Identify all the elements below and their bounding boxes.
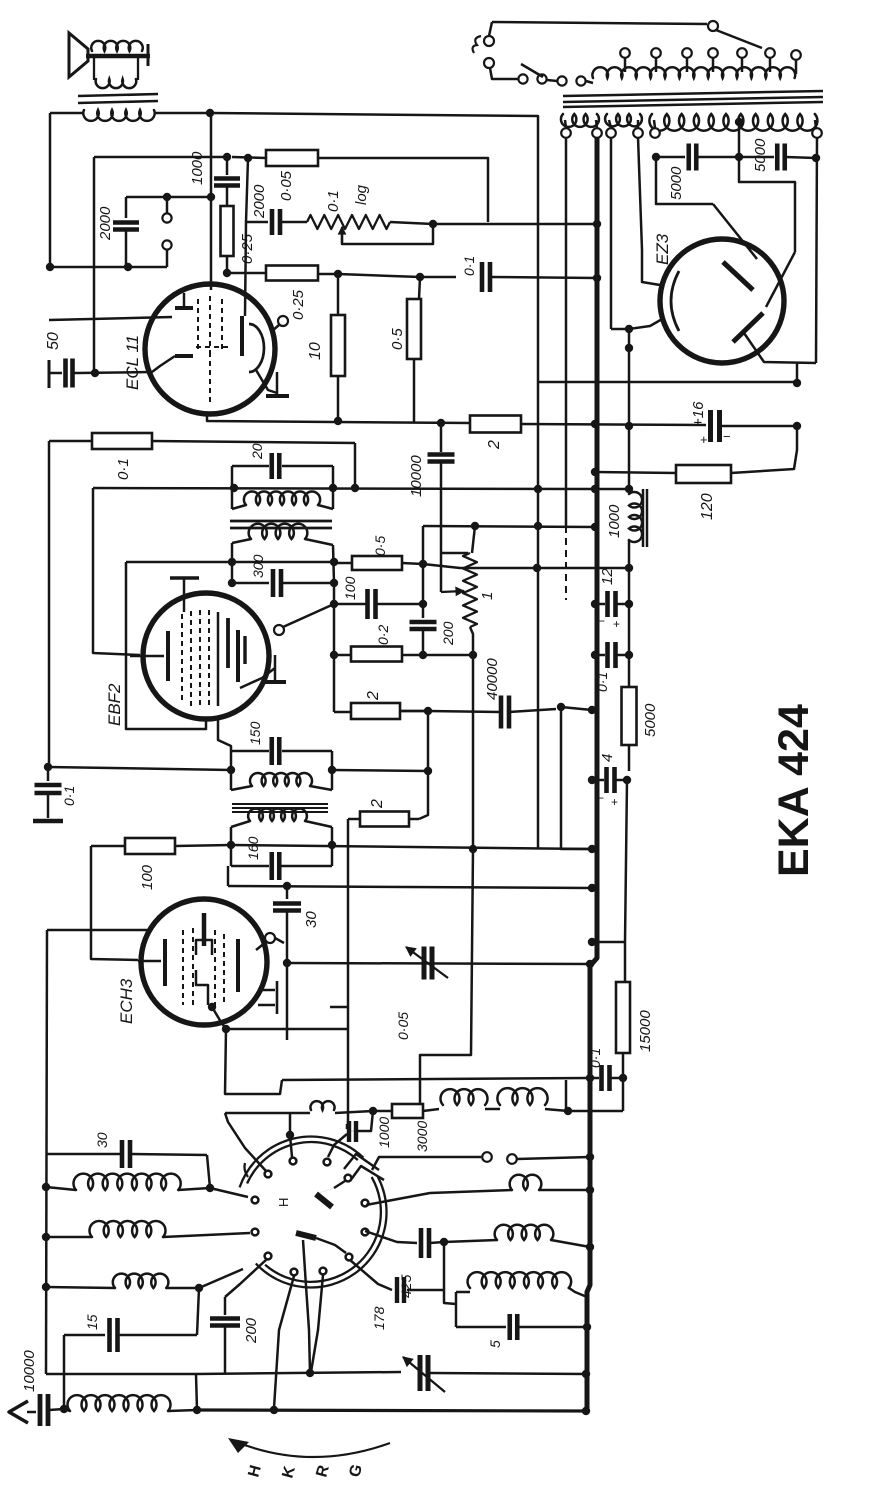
resistor 3000 horizontal <box>392 1104 423 1118</box>
transformer T2 secondary winding right <box>649 114 817 131</box>
svg-text:3000: 3000 <box>414 1121 430 1152</box>
svg-text:+16: +16 <box>690 401 707 427</box>
potentiometer 1 zigzag vertical <box>463 553 477 627</box>
svg-text:0·2: 0·2 <box>375 625 391 645</box>
wire x334 vertical down <box>333 583 336 712</box>
tube ECH3 triode anode bar <box>202 913 207 946</box>
wire x91 vertical <box>91 846 138 960</box>
node dot bus y888 <box>588 884 596 892</box>
capacitor tuning 2 variable <box>418 1355 423 1391</box>
speaker voice coil <box>86 54 150 59</box>
capacitor 40000 <box>499 696 504 729</box>
node dot pot right <box>429 220 437 228</box>
wire x428 vertical <box>419 711 428 819</box>
wire y1007 stub <box>330 1006 348 1009</box>
switch mains top contact <box>708 21 718 31</box>
svg-text:15: 15 <box>84 1314 100 1330</box>
wire x64 down <box>63 1335 66 1409</box>
wire AF row y712 <box>400 710 428 713</box>
node dot sec left y583 <box>228 579 236 587</box>
node dot x274 y1410 <box>270 1406 278 1414</box>
switch S1 inner arc main <box>265 1177 381 1282</box>
tube EBF2 diode plate right <box>243 636 246 664</box>
capacitor 30 bottom <box>120 1140 125 1168</box>
wire y655 row <box>423 654 473 657</box>
capacitor 2000 left on vertical <box>125 197 128 218</box>
node dot x420 y1111 <box>419 1055 421 1111</box>
resistor 15000 vertical <box>624 942 627 982</box>
node dot bus y1247 <box>586 1243 594 1251</box>
wire y158 right segment to drop <box>318 158 488 222</box>
switch mains contact b <box>484 58 494 68</box>
wire x567 dashed gang link <box>565 526 567 600</box>
node dot y526 x475 <box>471 522 479 530</box>
coil 8 loops y1190 left <box>46 1187 76 1190</box>
switch S1 contacts ring <box>290 1158 297 1165</box>
wire y846 diode row <box>91 845 125 848</box>
tube ECH3 hexode anode bar <box>236 939 240 992</box>
node dot y1111 <box>564 1107 572 1115</box>
wire x47 long vertical <box>46 930 47 1374</box>
wire x348 long vertical <box>347 819 348 1129</box>
node dot sec right y583 <box>330 579 338 587</box>
wire y770 left long <box>48 767 231 770</box>
wire x471 vertical <box>420 849 473 1111</box>
svg-text:H: H <box>276 1198 291 1207</box>
wire x473 down <box>472 655 475 849</box>
wire osc grid tick <box>275 938 284 943</box>
node dot cap12 right <box>625 600 633 608</box>
node dot y488 b <box>329 484 337 492</box>
wire corner to y1188 <box>207 1155 210 1188</box>
wire y562 EBF2 box top <box>126 561 334 564</box>
terminal sec left b <box>592 128 602 138</box>
svg-text:−: − <box>598 614 605 628</box>
resistor 0.3 screen feed <box>334 562 352 565</box>
node dot cap12 bus <box>591 600 599 608</box>
wire anode supply rail y421 <box>207 414 470 423</box>
tube ECL11 envelope <box>145 284 275 414</box>
node dot y526 bus <box>591 523 599 531</box>
wire y273 row <box>227 272 266 275</box>
node dot x334 y604 <box>330 600 338 608</box>
switch S1 wiper 2 <box>296 1233 316 1238</box>
node dot cathode x95 <box>91 369 99 377</box>
node dot y197 b <box>207 193 215 201</box>
resistor 10 vertical <box>337 274 340 315</box>
IFT1 secondary coil top <box>232 539 251 543</box>
coil osc pair <box>441 1089 488 1105</box>
capacitor +16 electrolytic <box>708 410 713 442</box>
svg-text:0·1: 0·1 <box>587 1048 603 1068</box>
tube EZ3 cathode arc <box>671 271 679 331</box>
wire y224 to bus <box>433 223 597 226</box>
capacitor 1000 padder <box>346 1124 349 1129</box>
svg-text:0·1: 0·1 <box>61 786 77 806</box>
resistor 100 horizontal <box>125 838 175 854</box>
svg-text:300: 300 <box>250 554 266 578</box>
resistor 0.25 horizontal second <box>266 266 318 281</box>
tube EZ3 bottom lead <box>744 333 816 363</box>
svg-text:0·25: 0·25 <box>290 289 307 320</box>
arrow band indicator arc <box>234 1441 390 1457</box>
node dot bus y964 <box>586 960 594 968</box>
tube EBF2 grids dashed <box>181 614 183 704</box>
node dot y711 <box>424 707 432 715</box>
switch mains blade <box>716 30 762 48</box>
coil 4 loops y1288 left <box>46 1287 115 1288</box>
node dot y488 a <box>230 484 238 492</box>
node dot y771 <box>424 767 432 775</box>
transformer T2 primary winding <box>586 81 593 83</box>
svg-text:0·5: 0·5 <box>372 536 388 556</box>
node dot y849 x473 <box>469 845 477 853</box>
node dot bus y1190 <box>586 1186 594 1194</box>
IFT2 secondary right edge <box>331 827 334 866</box>
resistor 0.2 <box>334 654 351 657</box>
tube ECL11 triode anode bar <box>175 306 193 310</box>
wire contact wiper down <box>306 1286 310 1373</box>
resistor 2 horizontal <box>470 416 521 433</box>
arrow tuning 2 <box>403 1357 445 1392</box>
wire +16 cap lower lead <box>628 426 630 450</box>
node dot rail x441 <box>437 419 445 427</box>
voltage selector contact 2 <box>537 74 546 83</box>
node dot x197 y1410 <box>193 1406 201 1414</box>
choke 1000 core marks <box>642 489 645 547</box>
node dot x444 <box>440 1238 448 1246</box>
IFT1 primary right edge <box>332 466 335 509</box>
node dot bus y710 <box>588 706 596 714</box>
tube EBF2 envelope <box>143 593 269 719</box>
IFT1 secondary right edge <box>333 545 334 583</box>
node dot y568 x537 <box>533 564 541 572</box>
node dot x287 y963 <box>283 959 291 967</box>
wire EBF2 anode drop <box>218 717 231 751</box>
svg-text:2000: 2000 <box>97 206 114 241</box>
wire y197 row <box>126 196 211 199</box>
voltage selector contact 3 <box>557 76 566 85</box>
wire to contact c <box>199 1269 243 1288</box>
node dot sec left y562 <box>228 558 236 566</box>
wire ECL11 triode grid <box>49 317 172 320</box>
IFT1 secondary left edge <box>231 543 234 583</box>
tube ECL11 grids dashed <box>197 299 199 352</box>
svg-text:200: 200 <box>440 621 456 646</box>
wire ECH3 bottom lead <box>212 1007 226 1029</box>
node dot y274 <box>334 270 342 278</box>
potentiometer wiper loop <box>342 224 433 244</box>
wire contact to dot 1410 <box>274 1276 294 1408</box>
wire y886 end <box>469 886 471 888</box>
node dot cap5000 b <box>735 153 743 161</box>
capacitor 5 <box>456 1326 506 1329</box>
IFT1 primary coil <box>232 505 246 509</box>
node dot x226 y1029 <box>222 1025 230 1033</box>
coil osc small 2 loops <box>225 1112 310 1115</box>
node dot x423 y655 <box>419 651 427 659</box>
capacitor 30 top <box>286 886 289 899</box>
wire x228 stub <box>227 866 230 886</box>
wire x423 down from 526 <box>422 526 425 564</box>
svg-text:2: 2 <box>369 799 386 809</box>
capacitor 100 <box>334 603 366 606</box>
wire x197 down <box>197 1288 199 1335</box>
antenna symbol <box>9 1401 28 1423</box>
node dot y655 x473 <box>469 651 477 659</box>
svg-text:0·05: 0·05 <box>395 1012 411 1040</box>
node dot rail x338 <box>334 417 342 425</box>
wire y382 row <box>538 381 797 384</box>
node dot x423 y604 <box>419 600 427 608</box>
node dot x423 y564 <box>419 560 427 568</box>
wire ECL11 cathode to cap50 <box>78 372 152 373</box>
wire 120 to +16 <box>731 426 797 473</box>
output transformer T1 primary winding <box>83 110 154 121</box>
tube EZ3 anode bar 1 <box>723 262 753 290</box>
svg-text:5: 5 <box>487 1340 503 1348</box>
node dot x210 y1188 <box>206 1184 214 1192</box>
wire anode1 path <box>656 157 713 204</box>
capacitor 0.1 to chassis <box>47 767 50 781</box>
node dot bus y472 <box>591 468 599 476</box>
transformer T2 secondary winding mid <box>605 114 642 126</box>
node dot IFT2 prim left <box>227 766 235 774</box>
resistor 0.5 vertical <box>419 277 420 299</box>
tube ECL11 pentode anode bar <box>240 316 244 356</box>
node dot x46 y1287 <box>42 1283 50 1291</box>
svg-text:0·25: 0·25 <box>239 233 256 264</box>
svg-text:0·5: 0·5 <box>389 328 406 350</box>
output transformer T1 secondary winding <box>93 58 95 80</box>
svg-text:160: 160 <box>245 836 261 860</box>
wire contact lead d <box>311 1275 323 1372</box>
voltage selector blade <box>521 64 543 77</box>
node dot x334 y655 <box>330 651 338 659</box>
tube ECH3 signal grid bar <box>163 939 167 986</box>
wire main HT bus heavy <box>587 133 597 1411</box>
switch S1 wiper 1 <box>316 1194 332 1207</box>
resistor 2 second <box>360 812 409 827</box>
node dot cap4 bus <box>588 776 596 784</box>
wire grid bias row y267 <box>50 266 167 269</box>
wire y1029 row <box>226 1028 348 1031</box>
capacitor 0.1 grid <box>480 262 485 292</box>
node dot y197 a <box>163 193 171 201</box>
node dot x64 y1409 <box>60 1405 68 1413</box>
svg-text:10: 10 <box>307 342 324 360</box>
switch S1 inner arc top <box>247 1142 358 1183</box>
svg-text:EZ3: EZ3 <box>653 233 672 265</box>
wire switch contact top lead <box>290 1113 292 1157</box>
capacitor 150 <box>269 737 274 765</box>
wire y1154 row <box>47 1153 120 1156</box>
node dot x561 y707 <box>557 703 565 711</box>
wire to contact a <box>210 1188 248 1197</box>
wire x629 vertical from EZ3 <box>628 329 631 489</box>
svg-text:10000: 10000 <box>408 455 425 497</box>
tube EZ3 anode lead 2 <box>766 252 795 307</box>
IFT1 core <box>230 520 332 523</box>
wire y942 link <box>592 941 625 944</box>
switch S1 outer arc main <box>256 1177 387 1288</box>
wire left vertical from transformer to node <box>49 113 52 267</box>
node dot x46 y1237 <box>42 1233 50 1241</box>
coil antenna 8 loops <box>64 1409 70 1411</box>
svg-text:2: 2 <box>486 440 503 450</box>
node dot y157 b <box>244 154 252 162</box>
tube ECL11 grid cap terminal <box>278 316 288 326</box>
svg-text:−: − <box>723 429 731 444</box>
IFT2 primary left edge <box>230 751 233 790</box>
switch S1 tab <box>344 1154 379 1170</box>
wire mains top y22 <box>492 22 707 24</box>
node dot IFT2 sec right <box>328 841 336 849</box>
svg-text:12: 12 <box>599 568 616 585</box>
node dot y568 x629 <box>625 564 633 572</box>
switch S1 inner arc hook <box>244 1163 248 1177</box>
terminal sec right b <box>812 128 822 138</box>
resistor 2 first (grid) <box>334 711 351 714</box>
capacitor 0.1 osc <box>592 1077 599 1080</box>
svg-text:0·1: 0·1 <box>594 672 610 692</box>
wire y1374 row <box>46 1373 196 1376</box>
node dot IFT2 sec left <box>227 841 235 849</box>
tube ECL11 pentode cathode lead and bar <box>256 370 277 393</box>
capacitor 200 bottom <box>224 1297 227 1315</box>
node junction dot top rail <box>206 109 214 117</box>
wire EBF2 cathode box <box>126 562 206 729</box>
node dot sec right y562 <box>330 558 338 566</box>
tube ECL11 pentode cathode ellipse <box>249 324 264 372</box>
svg-text:10000: 10000 <box>21 1350 38 1392</box>
wire y526 AVC row <box>423 526 595 527</box>
node dot HV tap <box>735 118 743 126</box>
capacitor 5000 left <box>656 156 685 159</box>
svg-text:EBF2: EBF2 <box>105 683 124 726</box>
node dot IFT2 prim right <box>328 766 336 774</box>
wire x561 down to y849 <box>561 707 592 849</box>
capacitor 12 electrolytic <box>599 603 605 606</box>
capacitor 200 coupling vertical <box>422 564 425 618</box>
svg-text:200: 200 <box>243 1317 260 1344</box>
node junction dot A2 <box>124 263 132 271</box>
mains squiggle <box>473 36 481 53</box>
svg-text:1000: 1000 <box>376 1117 392 1148</box>
IFT2 secondary coil <box>231 821 250 827</box>
tube ECH3 grids dashed <box>182 930 184 1005</box>
transformer T2 secondary winding left <box>561 114 599 127</box>
resistor 0.1 horizontal <box>49 440 92 443</box>
svg-text:100: 100 <box>139 864 156 890</box>
node dot cap4 right <box>623 776 631 784</box>
wire x538 dots <box>534 485 542 493</box>
wire y886 diode detector row <box>228 886 592 888</box>
node dot cap01 right <box>625 651 633 659</box>
wire drop x355 <box>354 443 357 488</box>
wire triode anode vertical x211 <box>210 113 213 197</box>
wire top rail y114 to power area <box>210 113 538 849</box>
node dot x287 y886 <box>283 882 291 890</box>
wire x444 down <box>444 1242 456 1304</box>
svg-text:2: 2 <box>365 691 382 701</box>
node dot y488 bus <box>591 485 599 493</box>
terminal sec right a <box>650 128 660 138</box>
node dot x199 y1288 <box>195 1284 203 1292</box>
node dot y1111 x373 <box>369 1107 377 1115</box>
node dot x611 y329 <box>625 325 633 333</box>
IFT2 secondary bottom edge <box>231 865 269 868</box>
node dot bus y1411 <box>582 1407 590 1415</box>
svg-text:ECL 11: ECL 11 <box>123 335 142 390</box>
wire anode2 path <box>739 157 795 252</box>
node dot x623 y1078 <box>619 1074 627 1082</box>
contact pair y1157 <box>482 1152 492 1162</box>
output transformer T1 core <box>78 94 158 96</box>
wire contact upper-left lead <box>225 1113 266 1171</box>
node dot y383 <box>793 379 801 387</box>
wire y930 grid row <box>47 929 152 932</box>
resistor 5000 vertical <box>628 655 631 687</box>
wire filament to cathode bottom <box>629 318 664 329</box>
IFT2 primary coil <box>231 786 252 790</box>
IFT2 core <box>232 803 328 805</box>
wire y770 right to x428 <box>332 770 428 771</box>
wire pot top from AVC <box>472 526 475 553</box>
svg-text:−: − <box>597 791 604 805</box>
svg-text:1000: 1000 <box>189 151 206 185</box>
tube EZ3 anode lead 1 <box>713 204 757 259</box>
node dot bus y278 <box>593 274 601 282</box>
wire x567 vertical <box>565 133 568 526</box>
capacitor 300 <box>232 582 269 585</box>
node dot bus y1157 <box>586 1153 594 1161</box>
tube ECH3 internal step lines <box>196 940 212 955</box>
svg-text:+: + <box>613 617 620 631</box>
node dot bus y1078 <box>586 1074 594 1082</box>
capacitor 50 <box>48 360 51 388</box>
IFT2 secondary left edge <box>230 827 233 866</box>
svg-text:EKA 424: EKA 424 <box>770 704 818 877</box>
wire link y1111 <box>566 1110 623 1113</box>
capacitor 1000 on vertical <box>226 157 229 175</box>
resistor 0.05 horizontal <box>266 150 318 166</box>
capacitor tuning 1 variable <box>422 947 427 980</box>
switch S1 outer arc top <box>240 1137 364 1188</box>
capacitor 20 <box>269 453 274 479</box>
node dot bus y224 <box>593 220 601 228</box>
svg-text:30: 30 <box>303 911 320 928</box>
node dot bus y1327 <box>583 1323 591 1331</box>
capacitor 178 <box>350 1260 392 1290</box>
wire EZ3 filament left <box>610 137 613 329</box>
node dot y1135 <box>286 1131 294 1139</box>
svg-text:30: 30 <box>94 1132 110 1148</box>
tube ECH3 internal dot <box>208 1003 216 1011</box>
switch S1 wiper 2 shaft <box>303 1240 306 1286</box>
node dot y488 c <box>351 484 359 492</box>
potentiometer 0.1 log zigzag <box>307 215 390 229</box>
arrow tuning 1 <box>406 947 448 978</box>
svg-text:5000: 5000 <box>642 703 659 737</box>
IFT1 primary top edge <box>232 465 269 468</box>
tube EBF2 screen line <box>217 612 220 706</box>
node dot y157 a <box>223 153 231 161</box>
svg-text:+: + <box>611 795 618 809</box>
terminal sec left a <box>561 128 571 138</box>
svg-text:0·05: 0·05 <box>278 170 295 201</box>
tube ECL11 triode cathode bar <box>175 354 193 358</box>
